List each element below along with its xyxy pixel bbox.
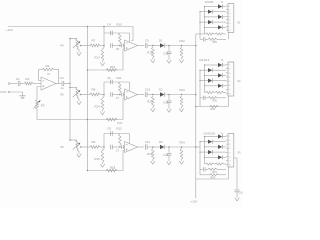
capacitor C8 ch3 — [110, 131, 112, 136]
resistor R22 ch1 — [180, 47, 183, 58]
capacitor C7 row ch2 — [110, 92, 112, 97]
pot R5 wiper arrow — [73, 90, 80, 97]
LED D10 row2 group2 — [208, 68, 212, 72]
capacitor C5 row ch1 — [110, 43, 112, 48]
wire fcap stem ch2 — [168, 95, 170, 101]
connector X1 pins — [226, 5, 228, 7]
node filter input ch2 — [103, 94, 105, 96]
wire res row2 group1 — [200, 38, 203, 40]
node bus tap ch1 — [69, 38, 71, 40]
wire group3 vert odd — [204, 137, 206, 165]
ground R21 ch3 — [152, 160, 154, 161]
terminal input PinA — [8, 83, 10, 85]
wire feedback down ch2 — [129, 82, 131, 91]
resistor R10 ch1 — [119, 33, 122, 44]
svg-text:R3: R3 — [41, 104, 45, 108]
LED D7 row4 group1 — [208, 20, 212, 24]
connector X2 pins — [226, 64, 228, 66]
wire pot-R ch2 — [81, 94, 91, 96]
node fb-row junction ch2 — [119, 94, 121, 96]
resistor R20 ch2 — [152, 96, 155, 107]
svg-text:X3: X3 — [237, 151, 241, 155]
svg-text:+12V: +12V — [6, 28, 13, 32]
ground C14 ch3 — [168, 160, 170, 161]
ground R24 ch3 — [181, 160, 183, 161]
wire node up ch2 — [103, 82, 105, 95]
svg-text:C13: C13 — [163, 101, 169, 105]
wire group2 vert even — [199, 70, 201, 98]
wire bias row ch3 — [88, 170, 124, 172]
svg-text:R20: R20 — [147, 100, 153, 104]
svg-text:+12V: +12V — [191, 199, 198, 203]
connector X3 body — [228, 134, 234, 168]
wire group2 vert odd — [204, 65, 206, 93]
wire fcap stem2 ch1 — [168, 54, 170, 59]
wire row to opamp ch2 — [113, 94, 122, 96]
ground C18 — [236, 196, 238, 197]
potentiometer R3 — [36, 100, 39, 110]
capacitor C? row ch3 — [110, 145, 112, 150]
resistor R16 ch1 — [106, 69, 117, 72]
node filter cap ch1 — [168, 45, 170, 47]
svg-text:D4-D8: D4-D8 — [205, 0, 214, 4]
svg-text:PinA: PinA — [1, 90, 7, 94]
svg-text:C1: C1 — [16, 77, 20, 81]
wire LED row3 group2 — [205, 74, 219, 76]
wire fcap stem ch1 — [168, 46, 170, 52]
resistor R14 ch2 — [101, 98, 104, 110]
diode D3 ch3 — [160, 145, 164, 149]
node detector1 ch2 — [152, 94, 154, 96]
node bus ch3 — [195, 146, 197, 148]
wire bias vertical ch1 — [122, 49, 124, 70]
node bias bus ch2 — [87, 119, 89, 121]
diode D1 ch1 — [160, 43, 164, 47]
wire LED row2 group3 — [200, 141, 208, 143]
wire LED row5 group3 — [205, 156, 219, 158]
ground pot ch1 — [78, 51, 80, 52]
wire LED row3 group1 — [205, 16, 219, 18]
svg-text:R15: R15 — [95, 157, 101, 161]
svg-text:C11: C11 — [145, 140, 150, 144]
wire LED row4 group1 — [200, 21, 208, 23]
wire LED row5 group2 — [205, 85, 219, 87]
resistor R12 ch3 — [119, 134, 122, 146]
capacitor C9 ch1 — [144, 43, 146, 48]
op-amp U3 ch2 — [125, 89, 138, 100]
resistor row1a group3 — [206, 163, 215, 165]
capacitor C13 ch2 — [167, 100, 172, 102]
wire feedback down ch1 — [129, 33, 131, 42]
wire bottom row to conn — [228, 167, 230, 179]
pot R3 wiper arrow — [33, 100, 40, 108]
resistor R17 ch2 — [106, 118, 117, 121]
svg-text:C?: C? — [116, 148, 120, 152]
capacitor input2 ch3 — [121, 145, 123, 149]
node bias bus ch1 — [87, 69, 89, 71]
svg-text:X2: X2 — [237, 79, 241, 83]
wire LED row2 group2 — [200, 69, 208, 71]
wire rail to ch1 node — [103, 27, 105, 34]
node filter cap ch2 — [168, 94, 170, 96]
wire diode-out ch3 — [165, 146, 196, 148]
ground jack — [20, 95, 26, 97]
capacitor res row2 group1 — [202, 37, 204, 41]
svg-text:R19: R19 — [147, 51, 153, 55]
node load R ch3 — [181, 146, 183, 148]
wire LED row1 group2 — [205, 64, 219, 66]
wire LED row3 group3 — [205, 146, 219, 148]
capacitor C18 — [235, 189, 240, 191]
LED D8 row5 group1 — [218, 25, 222, 29]
wire res row2 group2 — [200, 97, 203, 99]
resistor row1b group3 — [215, 163, 224, 165]
wire bias bus vertical — [87, 27, 89, 171]
wire rail drop to U2 V+ — [131, 27, 133, 41]
connector X3 pins — [226, 135, 228, 137]
wire shunt jog ch2 — [103, 95, 105, 99]
resistor R2 — [42, 68, 54, 71]
wire node up ch1 — [103, 33, 105, 46]
wire LED row1 group1 — [205, 6, 219, 8]
svg-text:C9: C9 — [145, 38, 149, 42]
svg-text:R9: R9 — [92, 140, 96, 144]
ground C13 ch2 — [168, 108, 170, 109]
svg-text:R24: R24 — [180, 141, 186, 145]
node filter input ch1 — [103, 45, 105, 47]
svg-text:R7: R7 — [92, 39, 96, 43]
wire group3 extra row — [200, 174, 210, 176]
terminal input ground — [8, 91, 10, 93]
diode D2 ch2 — [160, 92, 164, 96]
svg-text:R2: R2 — [46, 64, 50, 68]
pot R6 wiper arrow — [73, 143, 80, 150]
wire row to opamp ch1 — [113, 45, 122, 47]
node detector1 ch3 — [152, 146, 154, 148]
svg-text:C16: C16 — [238, 192, 243, 195]
wire ch3 feed — [196, 146, 200, 148]
ground pot ch2 — [78, 100, 80, 101]
wire pot ground drop ch2 — [77, 98, 79, 100]
node bias bus ch3 — [87, 170, 89, 172]
wire group2 bottom to conn — [228, 96, 230, 107]
wire pot-R ch1 — [81, 45, 91, 47]
wire C18 drop — [234, 158, 237, 189]
capacitor C4 ch1 — [110, 31, 112, 36]
svg-text:R14: R14 — [95, 105, 101, 109]
svg-text:C7: C7 — [116, 96, 120, 100]
wire res row2 group3 — [200, 168, 203, 170]
wire bus top bend to group1 — [196, 33, 205, 35]
wire feedback row ch1 — [104, 32, 130, 34]
wire group3 bottom row — [196, 178, 229, 180]
wire pot ground drop ch1 — [77, 49, 79, 51]
wire R-node ch2 — [100, 94, 104, 96]
resistor R9 ch3 — [90, 146, 100, 149]
svg-text:D14-D18: D14-D18 — [204, 131, 216, 135]
svg-text:R16: R16 — [110, 65, 116, 69]
wire diode-out ch2 — [165, 94, 196, 96]
svg-text:R26: R26 — [213, 100, 218, 103]
wire signal bus vertical — [69, 39, 71, 141]
capacitor C6 ch2 — [110, 80, 112, 85]
svg-text:C5: C5 — [116, 47, 120, 51]
wire group2 bottom row — [196, 106, 229, 108]
LED D11 row3 group2 — [218, 73, 222, 77]
wire node up ch3 — [103, 134, 105, 148]
wire feedback left — [38, 70, 40, 81]
ground R20 ch2 — [152, 107, 154, 108]
wire opamp out ch3 — [138, 146, 145, 148]
wire shunt jog ch3 — [103, 147, 105, 151]
node rail ch1 tap — [103, 26, 105, 28]
wire group1 vert even — [199, 12, 201, 40]
wire input — [10, 83, 17, 85]
node signal bus junction — [69, 83, 71, 85]
op-amp U2 ch1 — [125, 40, 138, 51]
wire pot-R ch3 — [81, 146, 91, 148]
connector X1 body — [228, 4, 234, 33]
resistor R23 ch2 — [180, 96, 183, 107]
wire bias vertical ch3 — [122, 150, 124, 170]
svg-text:C12: C12 — [163, 52, 169, 56]
svg-text:R21: R21 — [147, 152, 153, 156]
node fb-row junction ch3 — [119, 146, 121, 148]
ground R19 ch1 — [152, 58, 154, 59]
resistor group2 bottom — [210, 105, 219, 107]
connector X2 body — [228, 62, 234, 96]
node pot out ch3 — [80, 146, 82, 148]
wire C18 down — [236, 192, 238, 197]
capacitor C12 ch1 — [167, 51, 172, 53]
resistor R15 ch3 — [101, 151, 104, 163]
wire feedback top — [39, 69, 43, 71]
resistor R13 ch1 — [101, 49, 104, 61]
wire bias vertical ch2 — [122, 98, 124, 120]
wire feedback row ch3 — [104, 133, 130, 135]
LED D12 row4 group2 — [208, 79, 212, 83]
node load R ch1 — [181, 45, 183, 47]
wire res row1 group2 — [205, 92, 206, 94]
ground R15 ch3 — [102, 163, 104, 164]
svg-text:D9-D13: D9-D13 — [200, 58, 210, 62]
resistor row1b group1 — [215, 33, 224, 35]
wire group2 vert ext — [199, 98, 201, 107]
wire LED row4 group2 — [200, 80, 208, 82]
wire R-node ch1 — [100, 45, 104, 47]
svg-text:R11: R11 — [117, 76, 122, 80]
wire shunt jog ch1 — [103, 46, 105, 50]
node bus tap ch2 — [69, 87, 71, 89]
resistor R19 ch1 — [152, 47, 155, 58]
svg-text:C6: C6 — [107, 76, 111, 80]
LED D13 row5 group2 — [218, 84, 222, 88]
ground R14 ch2 — [102, 110, 104, 111]
svg-text:D2: D2 — [159, 87, 163, 91]
wire feedback row ch2 — [104, 81, 130, 83]
capacitor res row2 group3 — [202, 167, 204, 171]
capacitor input2 ch1 — [121, 44, 123, 48]
resistor R24 ch3 — [180, 149, 183, 160]
wire R1-U1 — [33, 83, 41, 85]
capacitor C10 ch2 — [144, 92, 146, 97]
svg-text:R8: R8 — [92, 88, 96, 92]
ground R23 ch2 — [181, 107, 183, 108]
wire U1 out — [56, 83, 61, 85]
potentiometer R6 ch3 — [76, 140, 78, 150]
potentiometer R5 ch2 — [76, 88, 78, 98]
wire group1 r2 to conn — [228, 33, 230, 40]
LED D4 row1 group1 — [218, 4, 222, 8]
svg-text:R1: R1 — [26, 77, 30, 81]
wire U1 + input drop — [37, 87, 41, 100]
resistor group3 extra — [210, 174, 219, 176]
LED D18 row5 group3 — [218, 155, 222, 159]
wire res row1 group3 — [205, 163, 206, 165]
capacitor res row2 group2 — [202, 96, 204, 100]
LED D16 row3 group3 — [218, 145, 222, 149]
wire cap-node ch2 — [147, 94, 160, 96]
resistor row2 group1 — [208, 38, 217, 40]
potentiometer R4 ch1 — [76, 39, 78, 49]
wire LED row1 group3 — [205, 136, 219, 138]
LED D5 row2 group1 — [208, 10, 212, 14]
svg-text:R13: R13 — [95, 56, 101, 60]
wire group3 vert even — [199, 142, 201, 170]
resistor row2 group3 — [208, 168, 217, 170]
ground pot ch3 — [78, 152, 80, 153]
op-amp U1 — [41, 77, 56, 90]
wire bus-pot stub ch1 — [70, 38, 77, 40]
node filter input ch3 — [103, 146, 105, 148]
wire feedback down ch3 — [129, 134, 131, 144]
wire LED row5 group1 — [205, 26, 219, 28]
node rail / bias bus junction — [87, 26, 89, 28]
wire fcap stem ch3 — [168, 147, 170, 153]
node pot out ch1 — [80, 45, 82, 47]
wire res row1 group1 — [205, 33, 206, 35]
wire opamp out ch2 — [138, 94, 145, 96]
ground C12 ch1 — [168, 59, 170, 60]
wire jack ground — [10, 92, 23, 96]
resistor row2 group2 — [208, 97, 217, 99]
wire U1 inv stub — [39, 80, 42, 82]
svg-text:R30: R30 — [211, 108, 216, 111]
capacitor input2 ch2 — [121, 93, 123, 97]
svg-text:R12: R12 — [117, 126, 123, 130]
ground R22 ch1 — [181, 58, 183, 59]
capacitor C11 ch3 — [144, 144, 146, 149]
node detector1 ch1 — [152, 45, 154, 47]
wire right +12V bus vertical — [195, 34, 197, 179]
svg-text:C2: C2 — [60, 76, 64, 80]
node pot out ch2 — [80, 94, 82, 96]
svg-text:R22: R22 — [180, 39, 186, 43]
resistor row1b group2 — [215, 91, 224, 93]
resistor R1 — [24, 82, 33, 85]
LED D14 row1 group3 — [218, 134, 222, 138]
wire bias row ch1 — [88, 69, 124, 71]
wire LED row2 group1 — [200, 11, 208, 13]
resistor R7 ch1 — [90, 44, 100, 47]
node bus ch2 — [195, 94, 197, 96]
wire bus-pot stub ch2 — [70, 87, 77, 89]
svg-text:C8: C8 — [107, 126, 111, 130]
svg-text:R18: R18 — [110, 165, 116, 169]
node load R ch2 — [181, 94, 183, 96]
node bus g2 — [195, 106, 197, 108]
wire cap-node ch1 — [147, 45, 160, 47]
LED D9 row1 group2 — [218, 63, 222, 67]
svg-text:X1: X1 — [237, 21, 241, 25]
wire C1-R1 — [20, 83, 24, 85]
svg-text:C4: C4 — [107, 23, 111, 27]
svg-text:C10: C10 — [145, 87, 151, 91]
svg-text:R25: R25 — [213, 41, 218, 44]
LED D6 row3 group1 — [218, 15, 222, 19]
wire row to opamp ch3 — [113, 146, 122, 148]
node bus ch1 — [195, 45, 197, 47]
svg-text:C14: C14 — [163, 153, 169, 157]
resistor row1a group1 — [206, 33, 215, 35]
ground R13 ch1 — [102, 61, 104, 62]
pot R4 wiper arrow — [73, 41, 80, 48]
capacitor C14 ch3 — [167, 152, 172, 154]
wire group3 vert ext — [199, 169, 201, 175]
wire R3 down to bias row — [37, 109, 88, 120]
LED D17 row4 group3 — [208, 150, 212, 154]
wire bus-pot stub ch3 — [70, 139, 77, 141]
svg-text:D3: D3 — [159, 140, 163, 144]
node fb-row junction ch1 — [119, 45, 121, 47]
resistor R8 ch2 — [90, 93, 100, 96]
svg-text:R10: R10 — [117, 23, 123, 27]
wire diode-out ch1 — [165, 45, 196, 47]
wire group1 vert odd — [204, 7, 206, 35]
capacitor C2 — [61, 81, 63, 86]
wire feedback right — [58, 70, 60, 84]
wire cap-node ch3 — [147, 146, 160, 148]
op-amp U4 ch3 — [125, 142, 138, 153]
LED D15 row2 group3 — [208, 140, 212, 144]
svg-text:R23: R23 — [180, 88, 186, 92]
resistor R21 ch3 — [152, 149, 155, 160]
node bus tap ch3 — [69, 139, 71, 141]
resistor R18 ch3 — [106, 169, 117, 172]
svg-text:D1: D1 — [159, 38, 163, 42]
resistor R11 ch2 — [119, 82, 122, 93]
wire bias row ch2 — [88, 119, 124, 121]
wire fcap stem2 ch3 — [168, 155, 170, 160]
wire C2-bus — [64, 83, 70, 85]
wire LED row4 group3 — [200, 151, 208, 153]
svg-text:R17: R17 — [118, 121, 124, 125]
wire R-node ch3 — [100, 146, 104, 148]
resistor row1a group2 — [206, 91, 215, 93]
wire fcap stem2 ch2 — [168, 103, 170, 108]
node filter cap ch3 — [168, 146, 170, 148]
wire pot ground drop ch3 — [77, 150, 79, 152]
wire opamp out ch1 — [138, 45, 145, 47]
wire +12V top rail — [8, 26, 133, 28]
capacitor C1 — [17, 81, 19, 86]
wire +12V riser bottom — [195, 179, 197, 198]
